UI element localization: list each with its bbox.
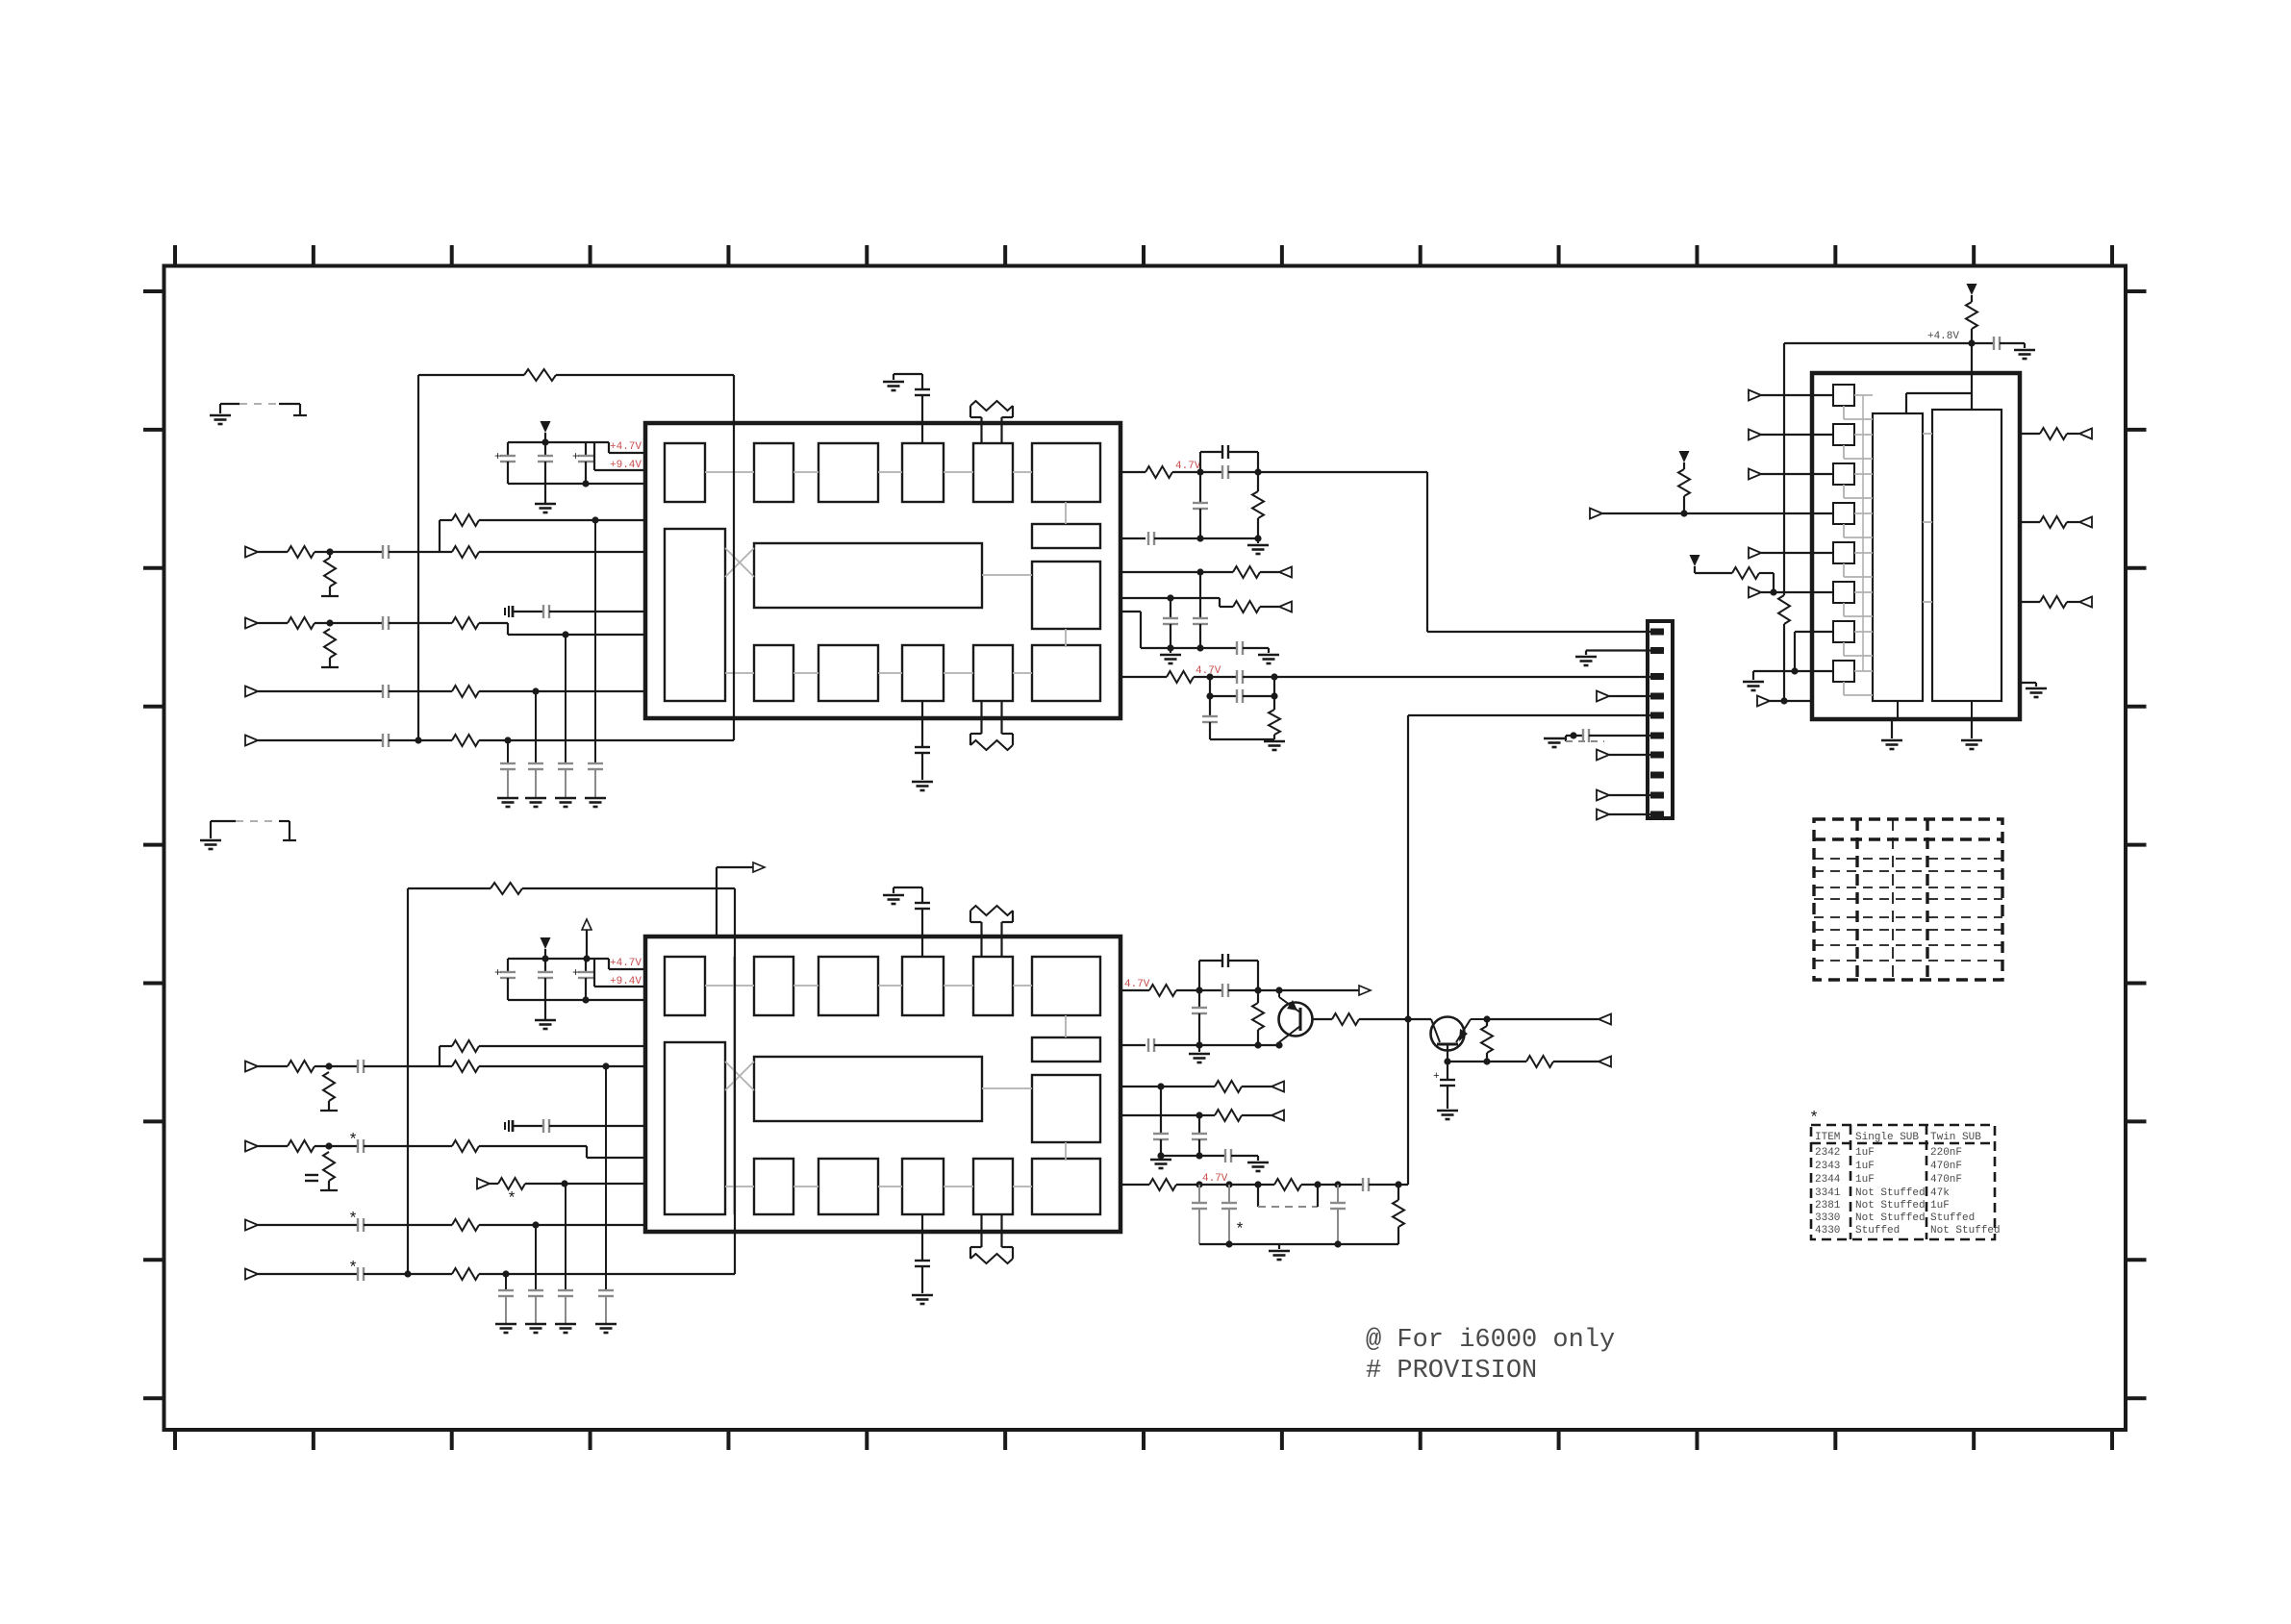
- resistor: [1252, 1003, 1264, 1030]
- svg-text:@ For i6000 only: @ For i6000 only: [1366, 1326, 1615, 1355]
- svg-text:47k: 47k: [1930, 1187, 1950, 1199]
- ground: [1437, 1110, 1458, 1112]
- cap: [1192, 1007, 1207, 1009]
- svg-text:1uF: 1uF: [1930, 1200, 1950, 1212]
- resistor feedback U1: [524, 369, 556, 381]
- resistor to gnd: [323, 1152, 335, 1181]
- IC U2 outline: [645, 937, 1120, 1232]
- U1 top row blocks: [754, 443, 793, 502]
- terminal: [1279, 567, 1292, 578]
- svg-text:Not Stuffed: Not Stuffed: [1855, 1212, 1926, 1224]
- cap: [1193, 617, 1208, 619]
- cap: [1221, 445, 1223, 459]
- terminal: [2079, 429, 2092, 439]
- net stub symbol bottom: [211, 820, 236, 822]
- cap: [1221, 954, 1223, 967]
- series cap: [1147, 1038, 1149, 1052]
- input terminal: [245, 1269, 258, 1280]
- U1 feedback loop wire: [417, 375, 419, 740]
- U1 output row4: [1120, 597, 1220, 599]
- svg-text:+4.8V: +4.8V: [1927, 331, 1959, 342]
- input terminal: [245, 687, 258, 697]
- U2 pin-interface block: [665, 1042, 725, 1214]
- input terminal: [245, 618, 258, 629]
- input terminal: [1757, 696, 1770, 707]
- svg-text:# PROVISION: # PROVISION: [1366, 1357, 1537, 1386]
- border frame: [164, 266, 2127, 1431]
- U1 output row5 4.7V: [1120, 676, 1167, 678]
- U2 feedback loop wire: [407, 888, 409, 1274]
- U1 pin-interface block: [665, 529, 725, 701]
- svg-text:2381: 2381: [1815, 1200, 1841, 1212]
- svg-text:+: +: [1433, 1071, 1440, 1083]
- wire: [1258, 989, 1359, 991]
- dashed bypass: [1257, 1185, 1259, 1207]
- ground: [1269, 1250, 1290, 1253]
- svg-text:Not Stuffed: Not Stuffed: [1855, 1187, 1926, 1199]
- cap: [1192, 1133, 1207, 1135]
- resistor to gnd: [324, 558, 336, 587]
- arrow out: [753, 862, 765, 872]
- U2 middle wide block: [754, 1057, 982, 1121]
- U1 cap-gnd row: [512, 606, 515, 617]
- resistor to gnd: [324, 629, 336, 658]
- U1 output row2: [1120, 537, 1145, 539]
- wire: [1140, 612, 1142, 648]
- resistor: [1526, 1056, 1553, 1067]
- electrolytic cap at Q2 emitter: [1447, 1062, 1448, 1080]
- svg-text:*: *: [1235, 1221, 1245, 1239]
- ground: [1258, 654, 1279, 657]
- svg-text:3330: 3330: [1815, 1212, 1840, 1224]
- svg-text:3341: 3341: [1815, 1187, 1841, 1199]
- svg-text:4330: 4330: [1815, 1225, 1840, 1237]
- svg-text:*: *: [348, 1132, 358, 1150]
- U2 internal interconnect lines: [705, 985, 754, 987]
- svg-text:+9.4V: +9.4V: [610, 460, 642, 471]
- input terminal: [1590, 509, 1602, 519]
- svg-text:Not Stuffed: Not Stuffed: [1855, 1200, 1926, 1212]
- electrolytic cap C1: [507, 442, 509, 456]
- U2 cap-gnd row: [504, 1122, 506, 1130]
- resistor: [2040, 596, 2067, 608]
- resistor: [2040, 428, 2067, 439]
- U3 outputs: [2020, 433, 2040, 435]
- U2 decoupling caps below: [505, 1274, 507, 1290]
- U1 right mid block: [1032, 562, 1100, 629]
- Q1 base resistor: [1312, 1018, 1332, 1020]
- input terminal: [477, 1179, 490, 1189]
- IC U3 outline: [1812, 373, 2020, 719]
- cap: [1221, 465, 1223, 479]
- wire to connector: [1258, 471, 1427, 473]
- ground: [1743, 681, 1764, 684]
- U1 power block: [665, 443, 705, 502]
- series cap: [382, 734, 384, 747]
- series cap: [1236, 670, 1238, 684]
- U2 supply caps: [508, 958, 609, 960]
- cap: [1993, 337, 1995, 350]
- U2 output row2: [1120, 1044, 1145, 1046]
- terminal: [1271, 1082, 1284, 1092]
- svg-text:2342: 2342: [1815, 1147, 1840, 1159]
- series cap: [382, 545, 384, 559]
- Q2 emitter: [1447, 1044, 1448, 1062]
- U2 top-right arrow out: [716, 867, 718, 937]
- ground: [1160, 654, 1181, 657]
- terminal: [1597, 750, 1609, 761]
- svg-text:1uF: 1uF: [1855, 1147, 1875, 1159]
- input terminal: [245, 1141, 258, 1152]
- wire to connector: [1243, 676, 1650, 678]
- svg-text:470nF: 470nF: [1930, 1174, 1962, 1186]
- U1 top ground-cap: [894, 373, 922, 375]
- resistor: [1252, 491, 1264, 518]
- ground: [544, 484, 546, 504]
- svg-text:Stuffed: Stuffed: [1930, 1212, 1975, 1224]
- terminal: [1271, 1111, 1284, 1121]
- resistor feedback U2: [491, 883, 522, 894]
- U1 output row1 4.7V: [1120, 471, 1145, 473]
- wire: [522, 887, 735, 889]
- series cap: [357, 1218, 359, 1232]
- svg-text:+: +: [572, 966, 579, 980]
- wire into U3: [1971, 343, 1973, 410]
- svg-text:+4.7V: +4.7V: [610, 441, 642, 453]
- series cap: [1362, 1178, 1364, 1191]
- series cap: [382, 616, 384, 630]
- svg-text:220nF: 220nF: [1930, 1147, 1962, 1159]
- resonator X2 below U1: [969, 734, 971, 745]
- series cap: [1147, 532, 1149, 545]
- resistor: [1966, 302, 1977, 329]
- ground: [1544, 737, 1565, 740]
- U1 middle wide block: [754, 543, 982, 608]
- empty dashed table: [1814, 819, 2002, 980]
- arrow out: [1359, 986, 1371, 995]
- cap C2: [544, 442, 546, 456]
- svg-text:*: *: [507, 1190, 516, 1209]
- svg-text:ITEM: ITEM: [1815, 1132, 1840, 1143]
- ground: [1881, 739, 1902, 742]
- series cap: [1224, 1149, 1226, 1162]
- series cap: [1236, 641, 1238, 655]
- transistor Q1: [1279, 1003, 1313, 1037]
- U3 tall block B: [1932, 410, 2001, 701]
- U3 left rail: [1783, 343, 1785, 595]
- cap: [1153, 1133, 1169, 1135]
- U1 input row A: [440, 519, 452, 521]
- svg-text:+: +: [494, 450, 501, 463]
- terminal: [1597, 691, 1609, 702]
- U3 row 8: [1753, 670, 1833, 672]
- svg-text:2344: 2344: [1815, 1174, 1841, 1186]
- resistor: [1393, 1200, 1404, 1227]
- border tick marks: [173, 245, 177, 266]
- cap: [1193, 502, 1208, 504]
- series cap: [357, 1060, 359, 1073]
- ground: [1189, 1053, 1210, 1056]
- input terminal: [1749, 587, 1761, 598]
- ground: [1961, 739, 1982, 742]
- U1 internal interconnect lines: [705, 471, 754, 473]
- input terminal: [245, 736, 258, 746]
- series cap: [357, 1139, 359, 1153]
- U1 output row3: [1120, 571, 1233, 573]
- svg-text:Not Stuffed: Not Stuffed: [1930, 1225, 2001, 1237]
- U2 bottom row blocks: [754, 1159, 793, 1214]
- resistor: [1269, 710, 1280, 735]
- U2 input row A: [440, 1045, 452, 1047]
- wire: [733, 375, 735, 740]
- ground: [1247, 544, 1269, 547]
- resistor: [1481, 1026, 1493, 1053]
- input terminal: [245, 1062, 258, 1072]
- power arrow: [1690, 555, 1700, 566]
- connector J1: [1648, 621, 1673, 818]
- terminal: [1599, 1057, 1611, 1067]
- svg-text:Twin SUB: Twin SUB: [1930, 1132, 1981, 1143]
- input terminal: [1749, 548, 1761, 559]
- pin2 wire to ground: [1586, 649, 1650, 651]
- svg-text:*: *: [348, 1211, 358, 1229]
- ground: [1150, 1159, 1171, 1162]
- pin5 wire long: [1408, 714, 1650, 716]
- svg-text:4.7V: 4.7V: [1202, 1173, 1228, 1185]
- series cap: [357, 1267, 359, 1281]
- power arrow: [1967, 284, 1977, 295]
- U2 output bottom row 4.7V: [1120, 1184, 1149, 1186]
- resistor: [1678, 469, 1690, 496]
- terminal: [1599, 1014, 1611, 1025]
- cap: [1202, 715, 1218, 717]
- svg-text:Single SUB: Single SUB: [1855, 1132, 1919, 1143]
- caps to gnd rail: [1198, 1185, 1200, 1203]
- U1 bottom row blocks: [754, 645, 793, 701]
- electrolytic cap C4: [507, 959, 509, 972]
- cap C5: [544, 959, 546, 972]
- svg-text:*: *: [348, 1260, 358, 1278]
- transistor Q2: [1431, 1017, 1465, 1051]
- U2 mid output rows: [1120, 1086, 1215, 1087]
- ground: [2026, 687, 2047, 690]
- input terminal: [1749, 430, 1761, 440]
- U3 row 7: [1795, 631, 1833, 633]
- svg-text:Stuffed: Stuffed: [1855, 1225, 1900, 1237]
- IC U1 outline: [645, 423, 1120, 718]
- svg-text:+9.4V: +9.4V: [610, 976, 642, 987]
- resonator X3 above U2: [969, 911, 971, 922]
- svg-text:1uF: 1uF: [1855, 1174, 1875, 1186]
- U3 input cell blocks: [1833, 385, 1854, 406]
- terminal: [2079, 597, 2092, 608]
- terminal: [1597, 790, 1609, 801]
- svg-text:470nF: 470nF: [1930, 1161, 1962, 1172]
- wire: [734, 888, 736, 1274]
- input terminal: [1749, 390, 1761, 401]
- U1 supply caps top rail: [508, 441, 609, 443]
- terminal: [1597, 810, 1609, 820]
- U1 right small block: [1032, 524, 1100, 548]
- +4.8V rail: [1784, 342, 1972, 344]
- input terminal: [245, 547, 258, 558]
- cap + ground below U1: [921, 701, 923, 747]
- resistor to gnd: [323, 1072, 335, 1101]
- U3 pull resistor on rail: [1778, 595, 1790, 624]
- U2 supply bottom rail: [508, 999, 645, 1001]
- resonator X4 below U2: [969, 1247, 971, 1259]
- +9.4V wire: [593, 442, 595, 470]
- svg-text:+: +: [572, 450, 579, 463]
- vertical bus wire: [1407, 715, 1409, 1185]
- ground: [1264, 740, 1285, 743]
- pin6 wire cap-gnd: [1566, 735, 1583, 737]
- U2 top row blocks: [754, 957, 793, 1015]
- cap + ground below U2: [921, 1214, 923, 1261]
- cap: [1163, 617, 1178, 619]
- svg-text:4.7V: 4.7V: [1175, 461, 1201, 472]
- series cap: [382, 685, 384, 698]
- electrolytic cap C3: [585, 442, 587, 456]
- net stub symbol top: [220, 403, 239, 405]
- U2 right small block: [1032, 1037, 1100, 1062]
- power arrow U1: [541, 421, 551, 433]
- ground: [1247, 1162, 1269, 1164]
- +4.7V wire: [608, 442, 610, 453]
- svg-text:2343: 2343: [1815, 1161, 1840, 1172]
- svg-text:1uF: 1uF: [1855, 1161, 1875, 1172]
- input terminal: [1749, 469, 1761, 480]
- cap: [1236, 689, 1238, 703]
- power arrow: [1679, 451, 1690, 462]
- ground: [2014, 349, 2035, 352]
- U1 supply bottom rail: [508, 483, 645, 485]
- open arrow up: [582, 919, 592, 930]
- resistor: [1274, 1179, 1301, 1190]
- U3 internal lines: [1854, 394, 1873, 396]
- U2 right mid block: [1032, 1075, 1100, 1142]
- input terminal: [245, 1220, 258, 1231]
- resonator X1 above U1: [969, 406, 971, 417]
- U3 bottom grounds: [1891, 719, 1893, 738]
- svg-text:4.7V: 4.7V: [1196, 665, 1221, 677]
- U2 top ground-cap: [894, 887, 922, 888]
- cap: [1221, 984, 1223, 997]
- U2 power block: [665, 957, 705, 1015]
- svg-text:+4.7V: +4.7V: [610, 958, 642, 969]
- resistor: [2040, 516, 2067, 528]
- U1 decoupling caps below: [507, 740, 509, 763]
- power arrow U2: [541, 937, 551, 949]
- +4.7V wire: [608, 959, 610, 969]
- terminal: [2079, 517, 2092, 528]
- Q2 collector wire: [1483, 1015, 1490, 1022]
- electrolytic cap C6: [585, 959, 587, 972]
- ground: [544, 1000, 546, 1020]
- svg-text:+: +: [494, 966, 501, 980]
- +9.4V wire: [593, 959, 595, 987]
- U3 tall block A: [1873, 413, 1923, 701]
- svg-text:4.7V: 4.7V: [1124, 979, 1150, 990]
- wire: [556, 374, 734, 376]
- terminal: [1279, 602, 1292, 612]
- resistor: [1732, 567, 1759, 579]
